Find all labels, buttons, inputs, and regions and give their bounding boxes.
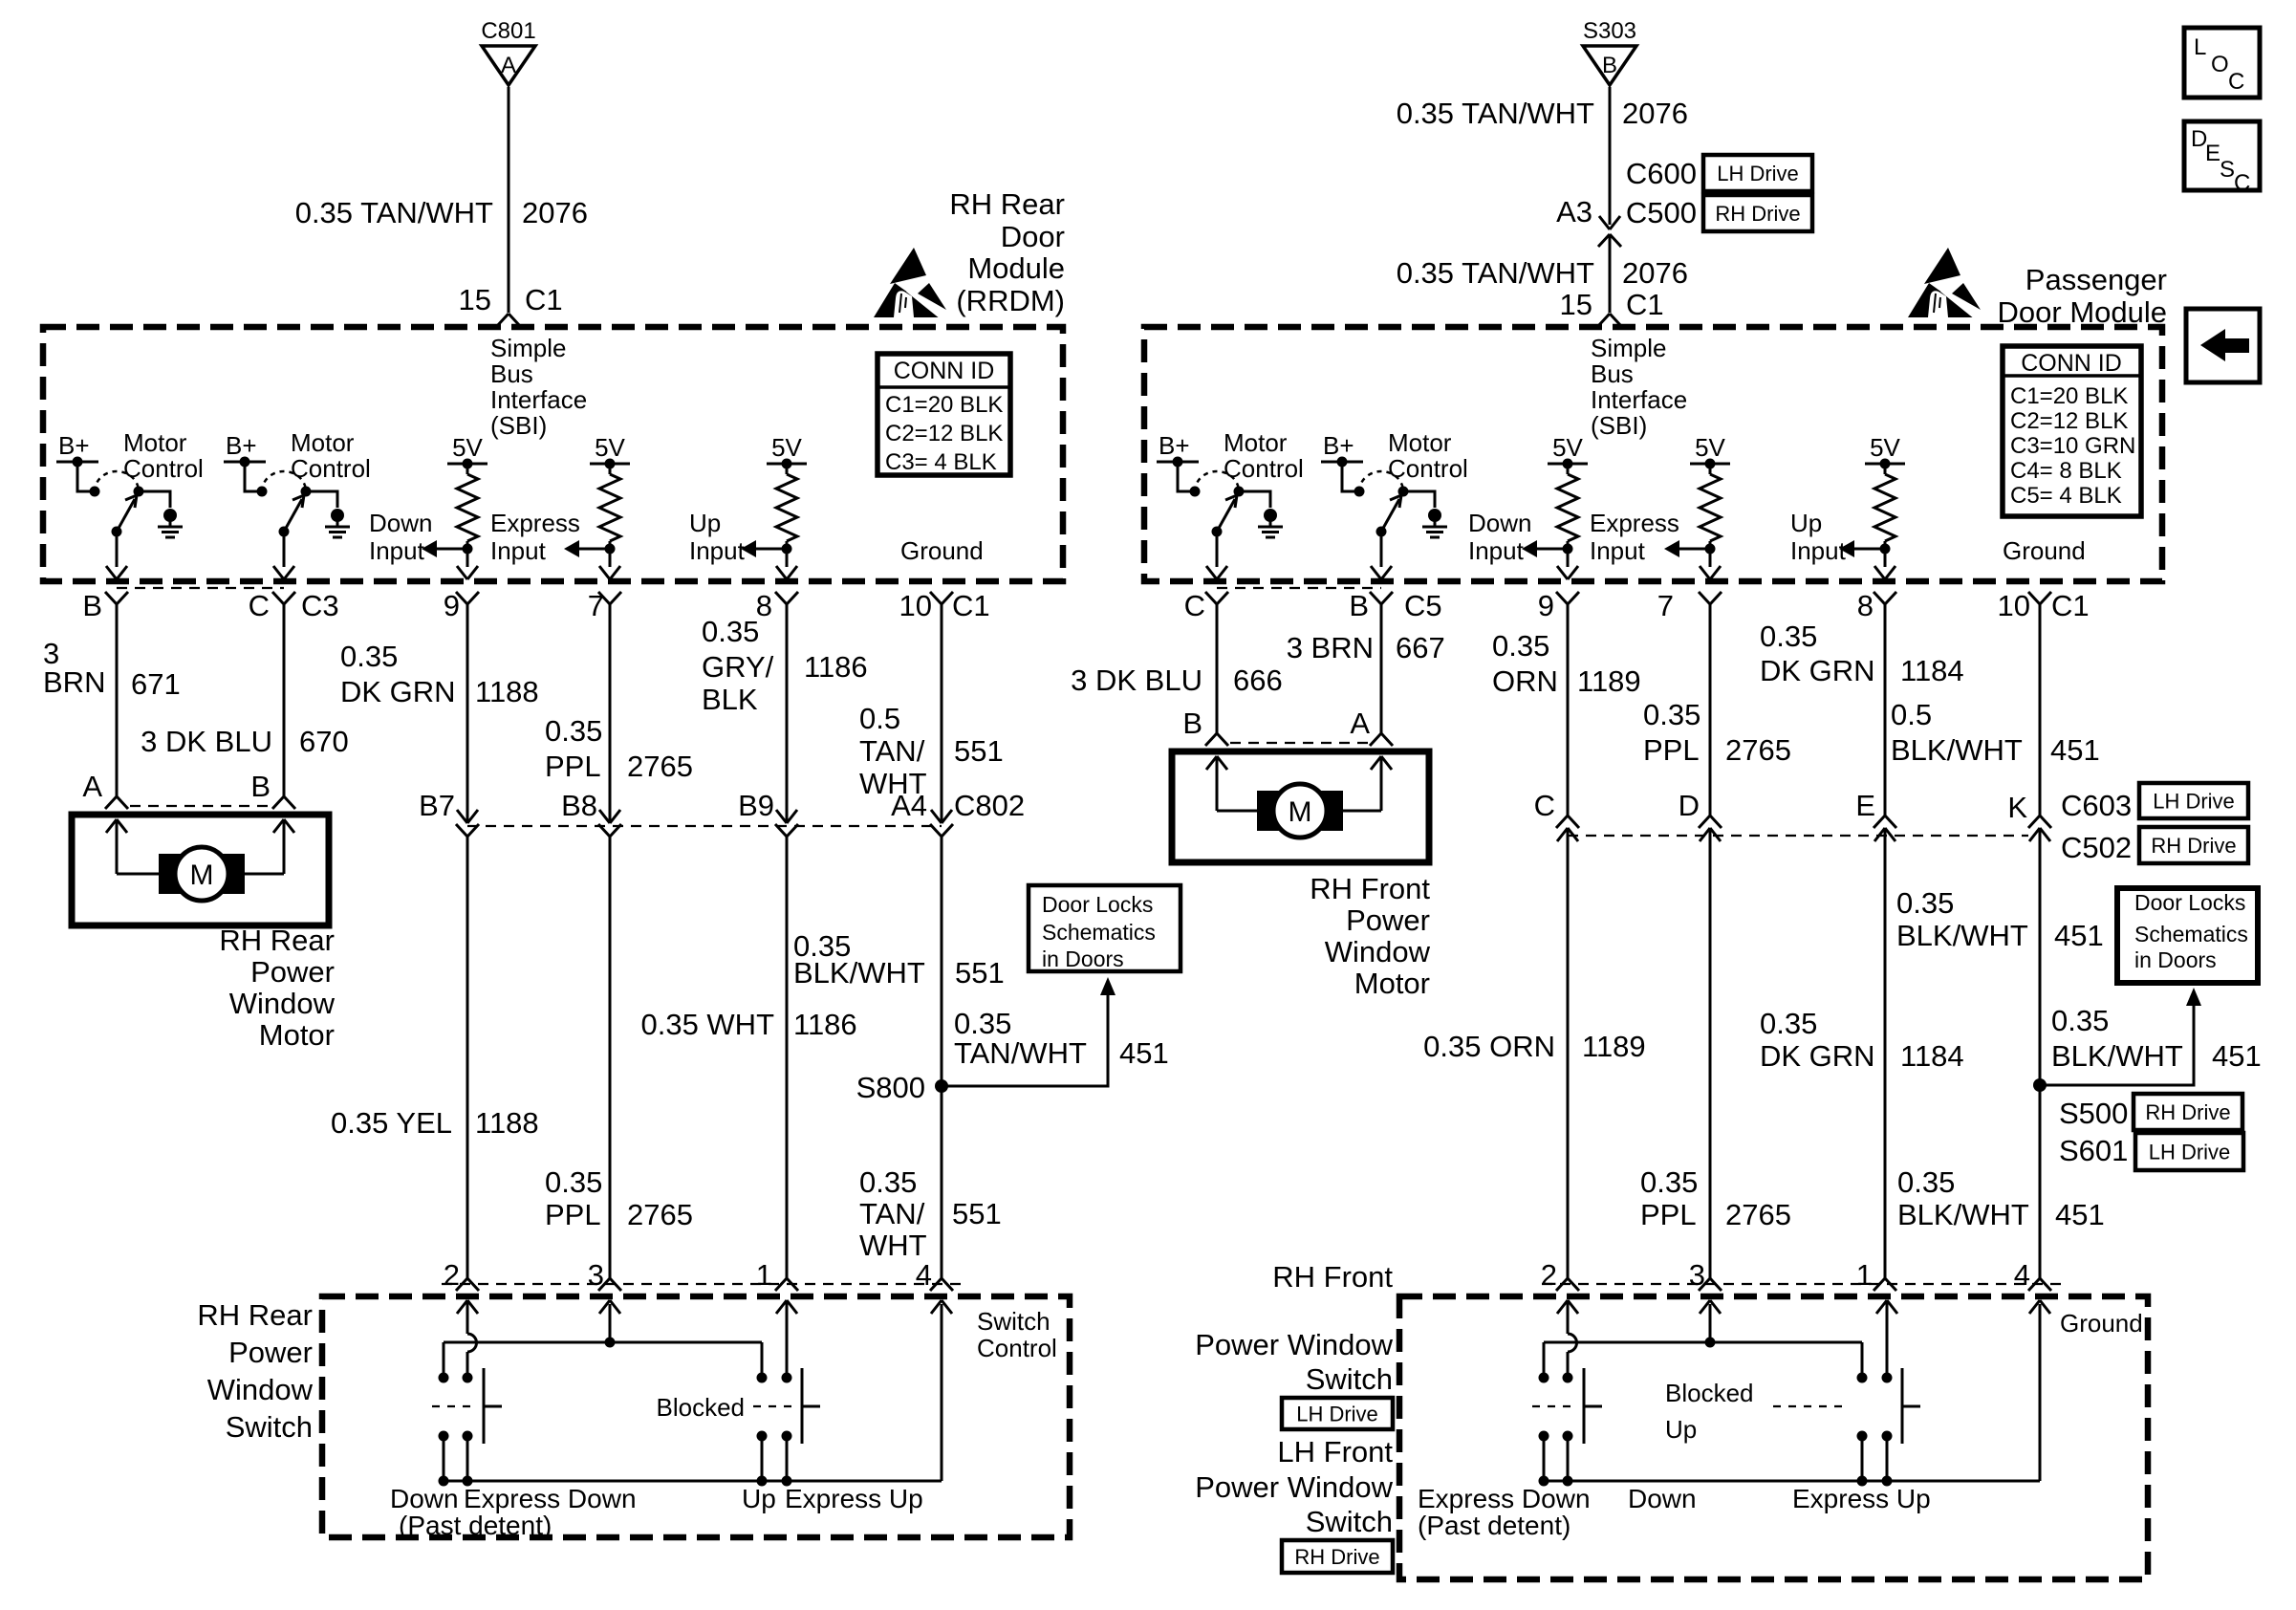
label K (pin) — [2007, 791, 2027, 824]
wire 2076 from S303 upper — [1609, 87, 1612, 225]
svg-text:Simple: Simple — [1591, 334, 1666, 362]
svg-text:Schematics: Schematics — [1042, 920, 1156, 945]
svg-text:M: M — [1289, 796, 1312, 828]
pin labels row (PDM) — [1184, 589, 2090, 622]
svg-text:LH Drive: LH Drive — [2153, 790, 2235, 814]
switch motor control 2 (PDM) — [1321, 428, 1468, 579]
svg-text:Power: Power — [1346, 903, 1430, 937]
label A3 C500 — [1556, 195, 1697, 229]
svg-text:C1=20 BLK: C1=20 BLK — [885, 392, 1003, 418]
svg-text:451: 451 — [2050, 733, 2100, 767]
resistor pull-up 1 (PDM) — [1522, 433, 1588, 579]
svg-text:4: 4 — [916, 1258, 932, 1292]
resistor pull-up 3 (RRDM) — [741, 433, 807, 579]
label 0.35 DK GRN 1188 — [340, 640, 539, 708]
svg-text:B+: B+ — [1159, 431, 1190, 460]
svg-text:1184: 1184 — [1900, 654, 1964, 687]
svg-text:Input: Input — [1790, 536, 1847, 565]
branch wire to door locks — [942, 977, 1116, 1086]
svg-text:0.35: 0.35 — [545, 714, 602, 748]
svg-text:1188: 1188 — [475, 675, 539, 708]
svg-text:C: C — [2234, 170, 2250, 196]
pin 8 bracket (PDM) — [1874, 592, 1896, 604]
box RH Drive (C502) — [2139, 827, 2248, 863]
wire 2076 from C801 — [508, 87, 510, 313]
label 0.35 PPL 2765 lower (PDM) — [1640, 1165, 1791, 1231]
label 0.5 BLK/WHT 451 — [1891, 698, 2100, 767]
svg-text:451: 451 — [2212, 1039, 2262, 1073]
svg-text:Interface: Interface — [1591, 385, 1687, 414]
svg-text:C802: C802 — [954, 789, 1025, 822]
svg-text:BLK/WHT: BLK/WHT — [793, 956, 925, 990]
svg-text:Express: Express — [490, 509, 580, 537]
pin 8 bracket — [775, 592, 798, 604]
label RH Front Power Window Motor — [1310, 872, 1430, 1000]
inline connector dashed face right — [1568, 835, 2028, 837]
svg-text:Express Down: Express Down — [1418, 1484, 1591, 1513]
svg-text:0.35: 0.35 — [859, 1165, 917, 1199]
svg-text:5V: 5V — [1695, 433, 1725, 462]
contact dashed gap right sw — [1532, 1405, 1578, 1407]
svg-text:B: B — [82, 589, 102, 622]
inline connector C603 pin C — [1556, 816, 1579, 841]
svg-text:BLK/WHT: BLK/WHT — [2051, 1039, 2183, 1073]
svg-text:C: C — [2228, 69, 2244, 95]
pin 1 label — [756, 1258, 772, 1292]
svg-text:Motor: Motor — [1224, 428, 1288, 457]
label 0.35 DK GRN 1184 — [1760, 620, 1964, 687]
svg-text:Bus: Bus — [1591, 359, 1634, 388]
wire 2076 from S303 lower — [1609, 234, 1612, 313]
svg-text:Switch: Switch — [1306, 1362, 1393, 1396]
splice S500 — [2033, 1078, 2047, 1092]
svg-text:A: A — [1350, 707, 1370, 740]
svg-text:Passenger: Passenger — [2025, 263, 2167, 296]
svg-text:Schematics: Schematics — [2134, 922, 2248, 946]
svg-text:Up: Up — [742, 1484, 776, 1513]
switch pin 3 bracket (PDM) — [1699, 1278, 1722, 1291]
box RH Drive (S500) — [2134, 1094, 2242, 1130]
svg-text:Control: Control — [123, 454, 204, 483]
connector C3 dashed face — [117, 587, 284, 589]
svg-text:0.35: 0.35 — [340, 640, 398, 673]
svg-text:PPL: PPL — [1640, 1198, 1697, 1231]
svg-text:15: 15 — [459, 283, 491, 316]
contact T bar right (left) — [802, 1368, 820, 1444]
inline connector pin D — [1699, 816, 1722, 841]
svg-text:B8: B8 — [561, 789, 597, 822]
svg-text:B7: B7 — [419, 789, 455, 822]
svg-text:Control: Control — [291, 454, 371, 483]
switch pin 3 bracket — [598, 1278, 621, 1291]
svg-text:C5: C5 — [1404, 589, 1442, 622]
label 0.35 WHT 1186 — [640, 1008, 856, 1041]
svg-text:Motor: Motor — [123, 428, 187, 457]
ESD symbol — [874, 248, 948, 319]
svg-text:C1: C1 — [2051, 589, 2090, 622]
svg-text:Input: Input — [689, 536, 746, 565]
svg-text:Bus: Bus — [490, 359, 533, 388]
label 0.35 TAN/WHT 451 — [954, 1007, 1169, 1070]
label Down Input — [369, 509, 432, 565]
svg-text:B: B — [1349, 589, 1369, 622]
pin 2 label — [444, 1258, 460, 1292]
label Ground (switch) — [2060, 1309, 2143, 1338]
contact T bar left (left) — [484, 1368, 502, 1444]
connector bracket at RRDM C1 pin 15 — [497, 314, 520, 326]
wire pin C to motor — [283, 604, 286, 796]
svg-text:C600: C600 — [1626, 157, 1697, 190]
svg-text:C603: C603 — [2061, 789, 2132, 822]
module title RH Rear Door Module (RRDM) — [949, 187, 1065, 317]
label 0.35 BLK/WHT 451 branch — [2051, 1004, 2262, 1073]
svg-text:5V: 5V — [771, 433, 802, 462]
motor pin labels right — [1182, 707, 1370, 740]
resistor pull-up express input (RRDM) — [422, 433, 487, 579]
door locks schematics box right — [2117, 888, 2258, 983]
svg-text:0.5: 0.5 — [859, 702, 900, 735]
svg-text:Door: Door — [1001, 220, 1065, 253]
motor pin labels — [82, 770, 271, 803]
svg-text:1186: 1186 — [804, 650, 868, 684]
svg-text:C1: C1 — [952, 589, 990, 622]
svg-text:0.35: 0.35 — [1760, 620, 1817, 653]
pin C bracket — [272, 592, 295, 604]
svg-text:Down: Down — [369, 509, 432, 537]
svg-text:BLK: BLK — [702, 683, 758, 716]
svg-text:Ground: Ground — [900, 536, 984, 565]
contact T bar right (right) — [1902, 1368, 1920, 1444]
svg-text:Express Up: Express Up — [785, 1484, 923, 1513]
label 0.35 BLK/WHT 451 mid — [1896, 886, 2104, 952]
pin 3 label (PDM) — [1689, 1258, 1705, 1292]
contact stubs (left) — [439, 1436, 792, 1487]
svg-text:551: 551 — [955, 956, 1005, 990]
svg-text:Ground: Ground — [2060, 1309, 2143, 1338]
svg-text:L: L — [2194, 34, 2206, 60]
DESC box — [2184, 121, 2260, 196]
left arrow nav box — [2186, 309, 2260, 382]
label Ground (PDM) — [2003, 536, 2086, 565]
contact stubs (right) — [1539, 1436, 1893, 1487]
svg-text:C801: C801 — [481, 18, 535, 44]
label Up Input right — [1790, 509, 1847, 565]
svg-text:5V: 5V — [1552, 433, 1583, 462]
label Switch Control — [977, 1307, 1057, 1362]
pin 7 bracket (PDM) — [1699, 592, 1722, 604]
motor arrow A (PDM) — [1327, 756, 1392, 811]
svg-text:B: B — [250, 770, 271, 803]
box LH Drive (switch) — [1282, 1398, 1393, 1429]
svg-text:551: 551 — [954, 734, 1004, 768]
svg-text:Up: Up — [1665, 1415, 1697, 1444]
label Simple Bus Interface (SBI) right — [1591, 334, 1687, 440]
svg-text:C3=10 GRN: C3=10 GRN — [2010, 433, 2135, 459]
svg-text:DK GRN: DK GRN — [1760, 1039, 1875, 1073]
motor box RH rear — [72, 815, 329, 925]
pin 3 label — [588, 1258, 604, 1292]
svg-text:CONN ID: CONN ID — [894, 358, 995, 384]
svg-text:Power Window: Power Window — [1195, 1470, 1393, 1504]
label 0.35 GRY/BLK 1186 — [702, 615, 868, 716]
label Express Input right — [1590, 509, 1679, 565]
svg-text:Input: Input — [1590, 536, 1646, 565]
svg-text:C1: C1 — [1626, 288, 1664, 321]
svg-text:(Past detent): (Past detent) — [1418, 1511, 1570, 1540]
label Express Up right — [1792, 1484, 1931, 1513]
svg-text:667: 667 — [1396, 631, 1445, 664]
wire 8 lower (PDM) — [1884, 828, 1887, 1278]
switch pin 4 bracket — [930, 1278, 953, 1291]
svg-text:0.35 ORN: 0.35 ORN — [1423, 1030, 1555, 1063]
svg-text:LH Drive: LH Drive — [1296, 1403, 1378, 1426]
svg-text:RH Drive: RH Drive — [1715, 202, 1800, 226]
svg-text:2: 2 — [444, 1258, 460, 1292]
switch pin 2 bracket (PDM) — [1556, 1278, 1579, 1291]
svg-text:1: 1 — [756, 1258, 772, 1292]
svg-text:Door Module: Door Module — [1998, 295, 2167, 329]
svg-text:2076: 2076 — [522, 196, 588, 229]
label LH Front Power Window Switch — [1195, 1435, 1393, 1538]
svg-text:2765: 2765 — [1725, 1198, 1791, 1231]
motor pin B bracket — [272, 796, 295, 809]
svg-text:0.35: 0.35 — [2051, 1004, 2109, 1037]
label 3 BRN 667 — [1287, 631, 1445, 664]
svg-text:C5= 4 BLK: C5= 4 BLK — [2010, 483, 2122, 509]
switch motor control 2 (RRDM) — [224, 428, 371, 579]
svg-text:2765: 2765 — [627, 750, 693, 783]
svg-text:E: E — [2205, 141, 2220, 166]
svg-text:RH Rear: RH Rear — [949, 187, 1065, 221]
svg-text:Up: Up — [689, 509, 721, 537]
svg-text:Door Locks: Door Locks — [1042, 892, 1153, 917]
svg-text:TAN/WHT: TAN/WHT — [954, 1036, 1087, 1070]
label RH Rear Power Window Switch — [197, 1298, 313, 1444]
motor arrow B — [228, 819, 294, 874]
label 0.35 BLK/WHT 451 bottom — [1897, 1165, 2105, 1231]
pin 10 bracket — [930, 592, 953, 604]
svg-text:666: 666 — [1233, 664, 1283, 697]
svg-text:(SBI): (SBI) — [1591, 411, 1647, 440]
svg-text:in Doors: in Doors — [1042, 946, 1124, 971]
switch box RH rear power window switch — [322, 1296, 1070, 1537]
module RRDM dashed box — [43, 327, 1063, 581]
svg-text:in Doors: in Doors — [2134, 947, 2217, 972]
label Ground (RRDM) — [900, 536, 984, 565]
svg-text:E: E — [1855, 789, 1875, 822]
svg-text:Motor: Motor — [1354, 967, 1430, 1000]
switch wire pin 1 (right) — [1876, 1300, 1897, 1374]
contact dots lower (right) — [1539, 1431, 1893, 1442]
switch pin 1 bracket — [775, 1278, 798, 1291]
pin B bracket — [105, 592, 128, 604]
inline connector B9 — [775, 810, 798, 837]
label RH Rear Power Window Motor — [219, 924, 335, 1052]
svg-text:PPL: PPL — [545, 750, 601, 783]
svg-text:1189: 1189 — [1582, 1030, 1646, 1063]
svg-text:C4= 8 BLK: C4= 8 BLK — [2010, 458, 2122, 484]
svg-text:1184: 1184 — [1900, 1039, 1964, 1073]
svg-text:671: 671 — [131, 667, 181, 701]
switch pin 2 bracket — [456, 1278, 479, 1291]
pin 9 bracket (PDM) — [1556, 592, 1579, 604]
box LH Drive (C600) — [1703, 155, 1812, 191]
label 0.35 YEL 1188 — [331, 1106, 539, 1140]
svg-text:0.35 TAN/WHT: 0.35 TAN/WHT — [295, 196, 493, 229]
svg-text:B: B — [1602, 53, 1617, 78]
svg-text:Input: Input — [490, 536, 547, 565]
switch conn dashed face left — [442, 1283, 967, 1285]
svg-text:451: 451 — [2054, 919, 2104, 952]
svg-text:0.35 YEL: 0.35 YEL — [331, 1106, 452, 1140]
label 0.35 BLK/WHT 551 — [793, 929, 1005, 990]
label 0.35 ORN 1189 — [1492, 629, 1641, 698]
svg-text:3 DK BLU: 3 DK BLU — [141, 725, 272, 758]
label 0.35 TAN/WHT 551 bottom — [859, 1165, 1002, 1262]
box RH Drive (switch) — [1282, 1540, 1393, 1573]
contact dashed gap left sw — [432, 1405, 478, 1407]
svg-text:C3: C3 — [301, 589, 339, 622]
module PDM dashed box — [1144, 327, 2162, 581]
wire 10 lower segment — [941, 837, 943, 1278]
svg-text:1186: 1186 — [793, 1008, 857, 1041]
svg-text:Switch: Switch — [226, 1410, 313, 1444]
motor box RH front — [1172, 751, 1429, 862]
svg-text:2: 2 — [1541, 1258, 1557, 1292]
pin labels row — [82, 589, 989, 622]
switch crossbar (right) — [1544, 1342, 1862, 1374]
label Simple Bus Interface (SBI) — [490, 334, 587, 440]
svg-text:K: K — [2007, 791, 2027, 824]
svg-text:2765: 2765 — [627, 1198, 693, 1231]
svg-text:2765: 2765 — [1725, 733, 1791, 767]
box LH Drive (C603) — [2139, 783, 2248, 818]
wire 9 upper (PDM) — [1567, 604, 1570, 816]
svg-text:RH Rear: RH Rear — [219, 924, 335, 957]
label A4 C802 — [891, 789, 1025, 822]
resistor pull-up 2 (RRDM) — [564, 433, 630, 579]
svg-text:Window: Window — [207, 1373, 314, 1406]
CONN ID table — [877, 354, 1010, 475]
svg-text:10: 10 — [1998, 589, 2030, 622]
svg-text:Express: Express — [1590, 509, 1679, 537]
inline connector C802 — [930, 810, 953, 837]
svg-text:0.35: 0.35 — [1640, 1165, 1698, 1199]
switch pin 1 bracket (PDM) — [1874, 1278, 1896, 1291]
svg-text:Express Up: Express Up — [1792, 1484, 1931, 1513]
svg-text:BRN: BRN — [43, 665, 105, 699]
wire 10 upper (PDM) — [2039, 604, 2042, 816]
svg-text:B+: B+ — [226, 431, 257, 460]
svg-text:S800: S800 — [856, 1071, 925, 1104]
svg-text:BLK/WHT: BLK/WHT — [1896, 919, 2028, 952]
contact T bar left (right) — [1584, 1368, 1602, 1444]
switch motor control 1 (RRDM) — [56, 428, 204, 579]
labels Down / Express Down — [390, 1484, 637, 1540]
pin 15 C1 label (right) — [1560, 288, 1664, 321]
svg-text:Control: Control — [1388, 454, 1468, 483]
wire 8 upper segment — [786, 604, 789, 823]
svg-text:Motor: Motor — [1388, 428, 1452, 457]
svg-text:Door Locks: Door Locks — [2134, 890, 2245, 915]
module title Passenger Door Module — [1998, 263, 2167, 329]
svg-text:PPL: PPL — [545, 1198, 601, 1231]
splice S800 — [856, 1071, 948, 1104]
svg-text:Input: Input — [1468, 536, 1525, 565]
contact dots lower (left) — [439, 1431, 792, 1442]
svg-text:0.35 WHT: 0.35 WHT — [640, 1008, 774, 1041]
pin 4 label (PDM) — [2014, 1258, 2030, 1292]
svg-text:LH Drive: LH Drive — [1717, 162, 1799, 185]
label 3 DK BLU 666 — [1071, 664, 1283, 697]
switch wire pin 2 with jump (left) — [457, 1300, 478, 1374]
svg-text:0.35 TAN/WHT: 0.35 TAN/WHT — [1397, 256, 1594, 290]
svg-text:Power Window: Power Window — [1195, 1328, 1393, 1361]
wire 7 upper segment — [609, 604, 612, 823]
wire 7 lower (PDM) — [1709, 828, 1712, 1278]
svg-text:RH Drive: RH Drive — [1294, 1545, 1379, 1569]
inline connector C500 — [1598, 216, 1621, 247]
svg-text:0.35: 0.35 — [1760, 1007, 1817, 1040]
box RH Drive (C500) — [1703, 195, 1812, 231]
svg-text:A3: A3 — [1556, 195, 1592, 228]
svg-text:0.5: 0.5 — [1891, 698, 1932, 731]
wire 7 lower segment — [609, 837, 612, 1278]
motor M2 RH front power window motor — [1257, 784, 1343, 838]
LOC box — [2184, 28, 2260, 98]
label 0.35 TAN/WHT 2076 (right upper) — [1397, 97, 1688, 130]
motor conn dashed face right — [1230, 742, 1368, 744]
switch wire pin 1 (left) — [776, 1300, 797, 1374]
svg-text:C3= 4 BLK: C3= 4 BLK — [885, 449, 997, 475]
labels Express Down / Down right — [1418, 1484, 1697, 1540]
switch wire pin 3 (left) — [599, 1300, 620, 1348]
label RH Front Power Window Switch — [1195, 1260, 1393, 1396]
label B9 — [738, 789, 774, 822]
label Blocked — [657, 1393, 798, 1422]
motor arrow A — [106, 819, 175, 874]
wire 9 lower segment — [466, 837, 469, 1278]
wire 7 upper (PDM) — [1709, 604, 1712, 816]
wire 9 lower (PDM) — [1567, 828, 1570, 1278]
svg-text:C500: C500 — [1626, 196, 1697, 229]
svg-text:S303: S303 — [1583, 18, 1636, 44]
svg-text:5V: 5V — [1870, 433, 1900, 462]
svg-text:9: 9 — [1538, 589, 1554, 622]
svg-text:DK GRN: DK GRN — [1760, 654, 1875, 687]
svg-text:3 DK BLU: 3 DK BLU — [1071, 664, 1202, 697]
svg-text:Window: Window — [1325, 935, 1431, 968]
wire pin C to motor (PDM) — [1216, 604, 1219, 733]
resistor pull-up 2 (PDM) — [1664, 433, 1730, 579]
svg-text:C: C — [249, 589, 270, 622]
branch wire to door locks right — [2040, 988, 2201, 1085]
pin 1 label (PDM) — [1856, 1258, 1873, 1292]
inline connector dashed face left — [467, 825, 942, 827]
label 0.35 TAN/WHT 2076 — [295, 196, 588, 229]
pin 7 bracket — [598, 592, 621, 604]
label 0.35 DK GRN 1184 mid — [1760, 1007, 1964, 1073]
svg-text:0.35 TAN/WHT: 0.35 TAN/WHT — [1397, 97, 1594, 130]
svg-text:0.35: 0.35 — [954, 1007, 1011, 1040]
label D (pin) — [1679, 789, 1700, 822]
wire 10 lower (PDM) — [2039, 828, 2042, 1278]
svg-text:C2=12 BLK: C2=12 BLK — [885, 421, 1003, 446]
svg-text:B+: B+ — [58, 431, 90, 460]
svg-text:C: C — [1534, 789, 1555, 822]
svg-text:S500: S500 — [2059, 1097, 2128, 1130]
svg-text:Power: Power — [250, 955, 335, 989]
